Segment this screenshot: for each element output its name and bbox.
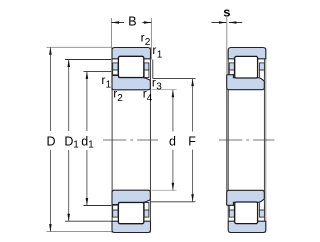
svg-text:1: 1 <box>157 50 163 61</box>
svg-text:F: F <box>188 135 196 149</box>
svg-text:d: d <box>169 135 176 149</box>
svg-text:1: 1 <box>88 140 94 151</box>
svg-text:D: D <box>64 135 73 149</box>
svg-text:B: B <box>128 14 136 28</box>
svg-text:s: s <box>223 5 230 20</box>
svg-text:2: 2 <box>117 93 123 104</box>
svg-text:r: r <box>152 75 156 89</box>
svg-text:2: 2 <box>145 37 151 48</box>
svg-text:3: 3 <box>156 82 162 93</box>
svg-text:1: 1 <box>106 79 112 90</box>
svg-text:D: D <box>47 135 56 149</box>
svg-text:4: 4 <box>147 93 153 104</box>
svg-text:1: 1 <box>73 140 79 151</box>
